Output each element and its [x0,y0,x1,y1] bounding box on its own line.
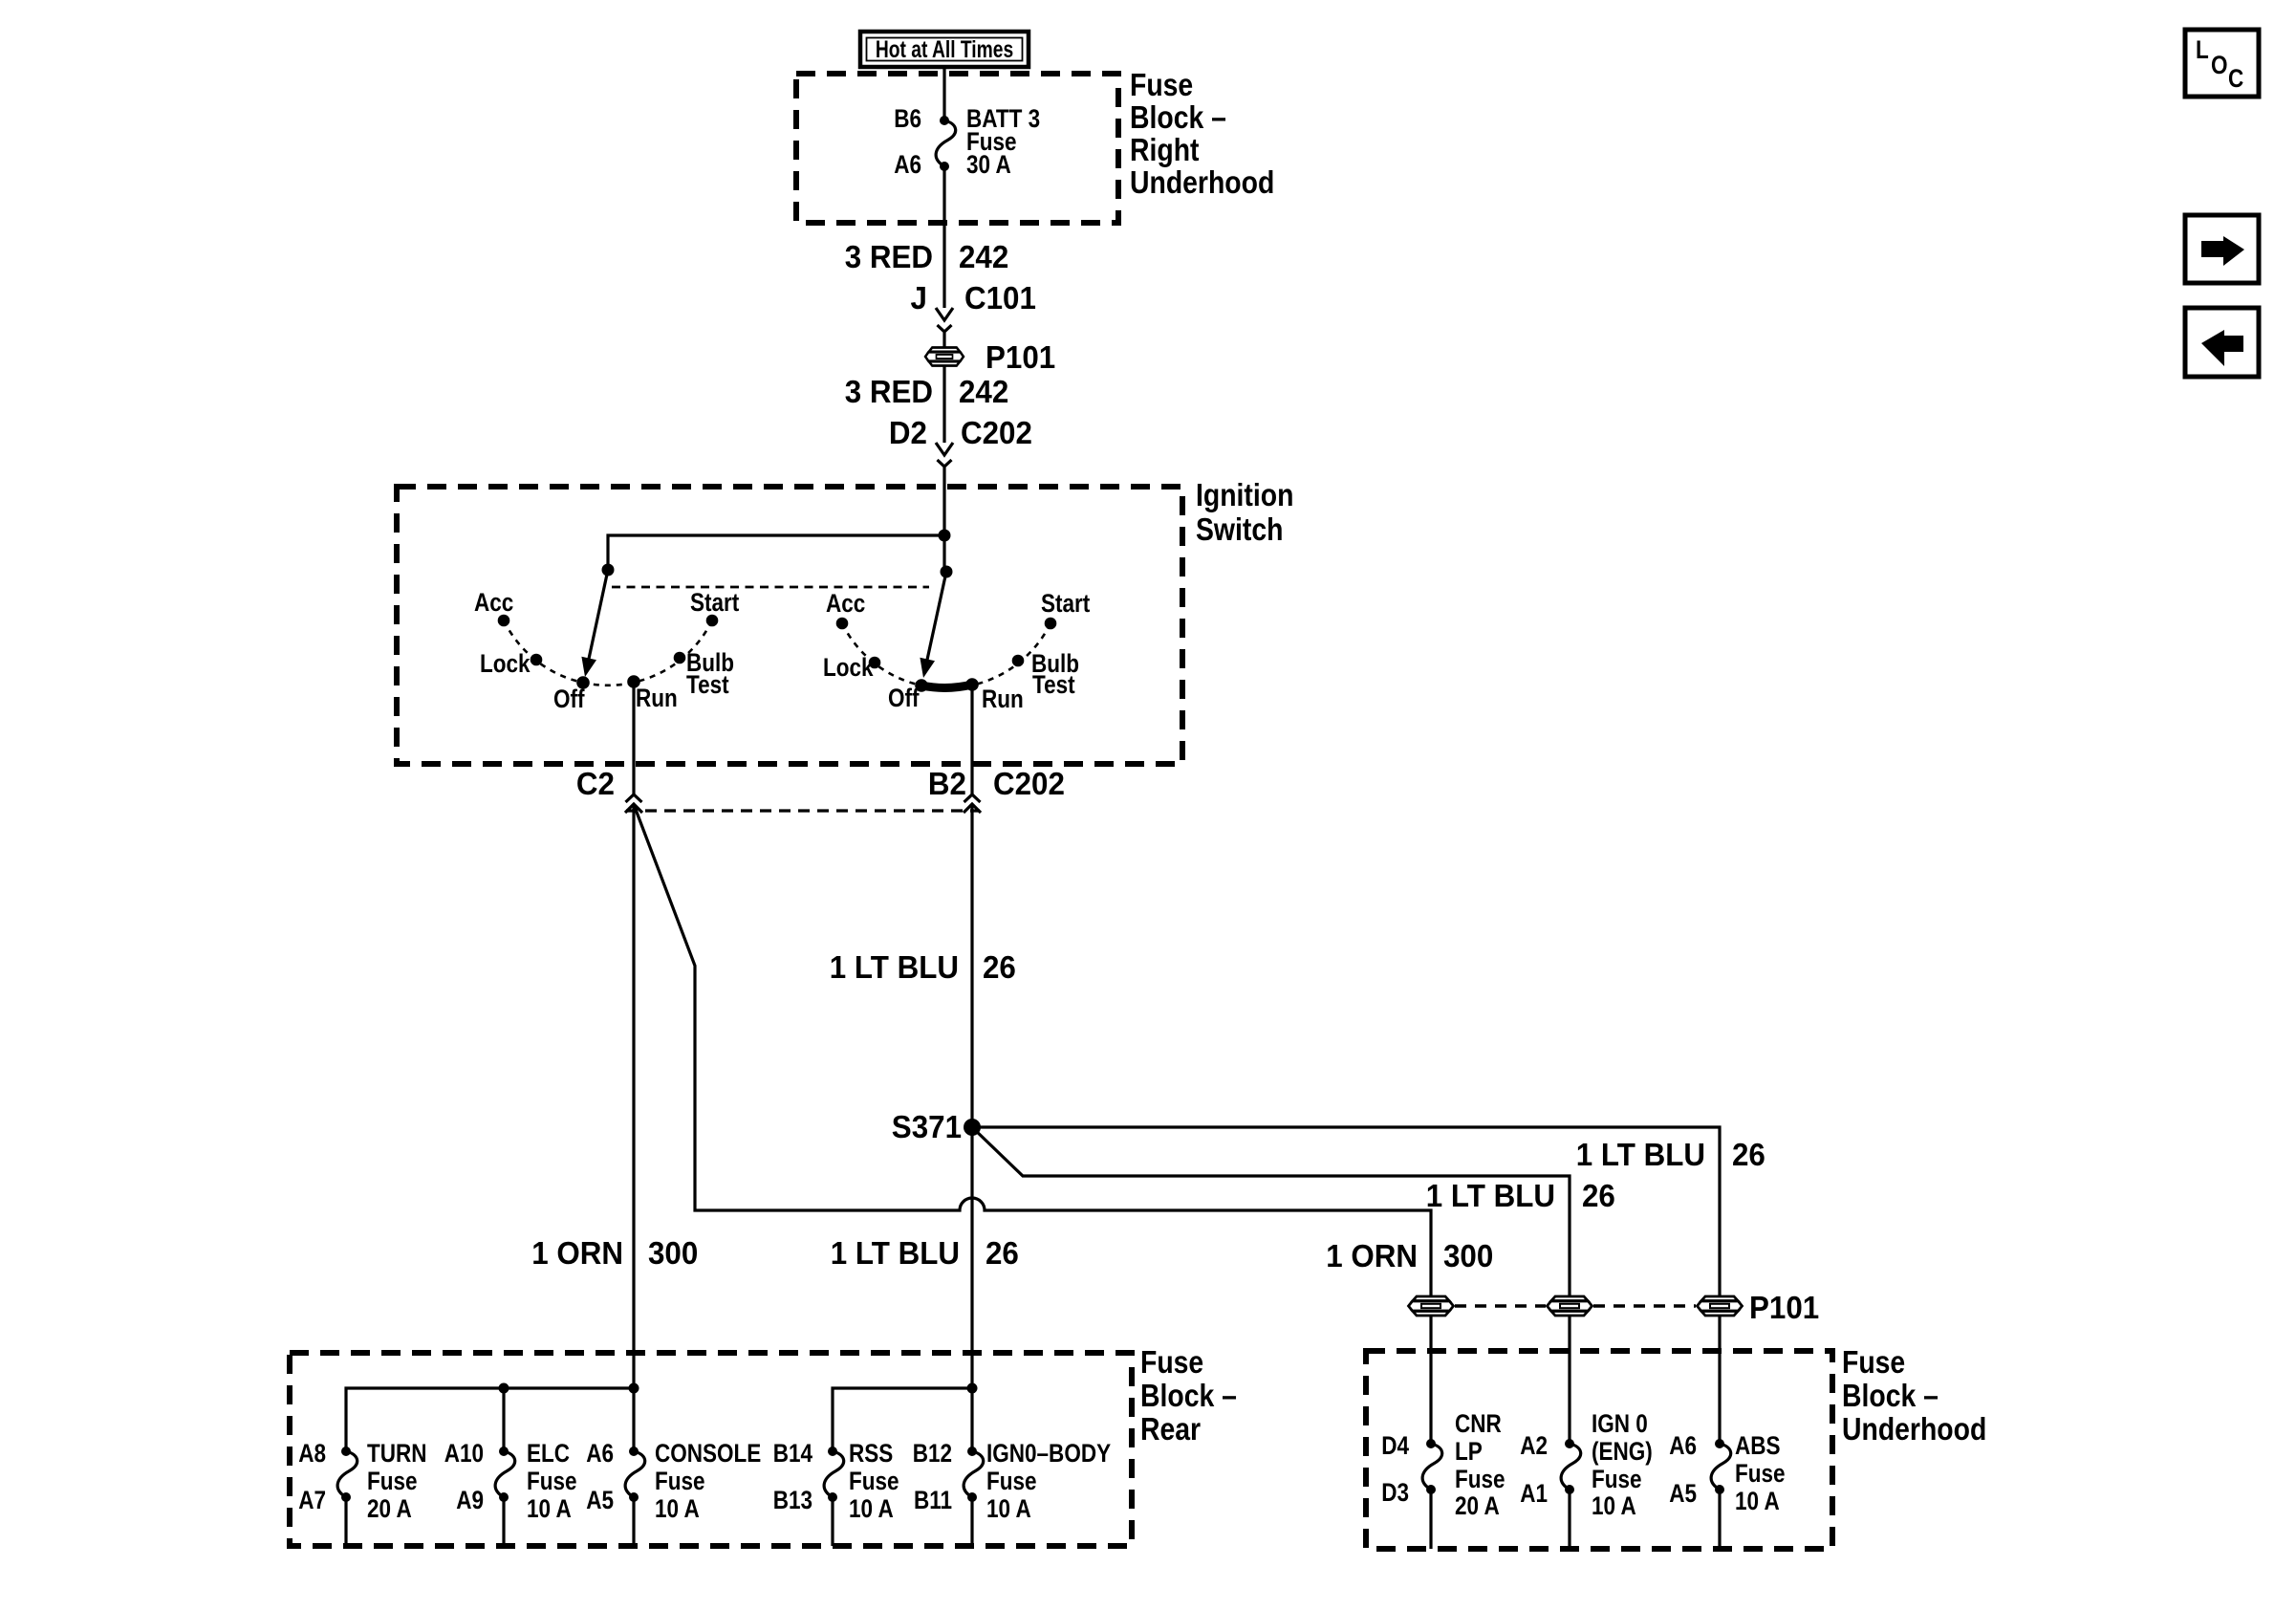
svg-text:Block –: Block – [1140,1378,1237,1414]
svg-text:D3: D3 [1381,1479,1409,1507]
svg-text:1 LT BLU: 1 LT BLU [831,1235,960,1271]
svg-text:TURN: TURN [367,1440,427,1468]
svg-text:O: O [2211,52,2228,79]
svg-text:Test: Test [686,671,729,699]
svg-text:L: L [2196,36,2209,64]
svg-text:Fuse: Fuse [1842,1344,1905,1381]
svg-text:Fuse: Fuse [1130,67,1193,103]
svg-text:Fuse: Fuse [1735,1460,1786,1488]
label Fuse Block - Rear [1140,1344,1237,1447]
svg-text:Lock: Lock [823,654,874,682]
wire bus to ELC fuse [502,1388,505,1451]
svg-text:1 ORN: 1 ORN [531,1235,623,1271]
svg-text:Fuse: Fuse [1592,1466,1642,1493]
svg-text:S371: S371 [892,1109,962,1144]
svg-text:26: 26 [983,949,1016,985]
svg-text:Ignition: Ignition [1196,477,1293,513]
fuse block underhood box [1366,1351,1832,1549]
wire branch from C2 to underhood 1 ORN 300 (with hop over B2 wire) [635,807,1431,1303]
wire from right Run out of box [970,685,973,794]
wire 3 RED 242 from P101 to C202 [942,366,945,443]
svg-text:10 A: 10 A [1592,1492,1636,1520]
legend left-arrow box [2185,308,2259,377]
svg-text:10 A: 10 A [655,1495,700,1523]
ignition switch right pole [823,566,1090,714]
svg-text:Acc: Acc [826,590,865,618]
svg-text:A7: A7 [298,1487,326,1514]
wire from hot bus to fuse B6 [942,66,945,120]
svg-text:10 A: 10 A [1735,1488,1780,1515]
svg-text:Off: Off [888,685,920,712]
svg-text:RSS: RSS [849,1440,893,1468]
svg-text:Fuse: Fuse [849,1468,899,1495]
svg-text:Block –: Block – [1842,1378,1939,1414]
wire into ignition switch [942,468,945,572]
svg-text:242: 242 [959,374,1008,409]
svg-text:C: C [2228,65,2243,93]
connector C202 dashed line [626,809,980,812]
node junction CONSOLE [629,1383,639,1394]
svg-text:Switch: Switch [1196,511,1283,548]
svg-text:B14: B14 [773,1440,813,1468]
fuse ABS 10A [1669,1432,1785,1549]
svg-text:Start: Start [690,589,739,617]
connector C101 pin J [911,280,1036,332]
label Fuse Block - Underhood [1842,1344,1986,1447]
svg-text:A1: A1 [1520,1480,1548,1508]
svg-text:Run: Run [982,685,1024,713]
svg-text:Underhood: Underhood [1842,1411,1986,1447]
wire 3 RED 242 from fuse A6 to C101 [942,166,945,308]
svg-text:Fuse: Fuse [1140,1344,1203,1381]
svg-text:20 A: 20 A [367,1495,412,1523]
svg-text:Rear: Rear [1140,1411,1201,1447]
connector C202 pin D2 [889,415,1032,467]
ignition switch box [397,487,1182,764]
svg-text:Underhood: Underhood [1130,164,1274,201]
fuse CONSOLE 10A [586,1440,761,1546]
svg-text:30 A: 30 A [966,151,1011,179]
svg-text:ELC: ELC [527,1440,570,1468]
fuse IGN 0 (ENG) 10A [1520,1410,1653,1549]
svg-text:Fuse: Fuse [527,1468,577,1495]
svg-text:Fuse: Fuse [367,1468,418,1495]
svg-text:Hot at All Times: Hot at All Times [876,36,1013,63]
splice S371 [892,1109,981,1144]
svg-text:J: J [911,280,927,315]
svg-text:Fuse: Fuse [1455,1466,1505,1493]
wire S371 to ABS 1 LT BLU 26 [972,1127,1720,1303]
rear bus right wire [833,1388,972,1451]
svg-text:A6: A6 [894,151,921,179]
svg-text:26: 26 [986,1235,1019,1271]
svg-text:Right: Right [1130,132,1199,168]
svg-text:CNR: CNR [1455,1410,1502,1438]
svg-text:1 LT BLU: 1 LT BLU [830,949,959,985]
svg-text:B2: B2 [928,766,966,801]
svg-text:A5: A5 [1669,1480,1697,1508]
fuse RSS 10A [773,1440,899,1546]
node Hot at All Times [860,32,1029,67]
svg-text:C202: C202 [993,766,1065,801]
svg-text:B11: B11 [914,1487,952,1514]
svg-text:A9: A9 [456,1487,484,1514]
ignition switch mechanical link (dashed) [612,586,929,589]
svg-text:A8: A8 [298,1440,326,1468]
svg-text:LP: LP [1455,1438,1483,1466]
svg-text:Start: Start [1041,590,1090,618]
svg-text:26: 26 [1582,1178,1615,1213]
svg-text:C101: C101 [964,280,1036,315]
svg-text:242: 242 [959,239,1008,274]
svg-text:C202: C202 [961,415,1032,450]
connector C202 pin C2 [576,766,642,813]
node junction [939,530,951,542]
svg-text:ABS: ABS [1735,1432,1781,1460]
svg-text:Off: Off [553,685,585,713]
fuse BATT 3 30A [894,105,1040,179]
svg-text:Run: Run [636,685,678,712]
svg-text:3 RED: 3 RED [845,239,933,274]
svg-text:26: 26 [1732,1137,1765,1172]
wires P101 to underhood fuses [1429,1316,1432,1444]
legend right-arrow box [2185,215,2259,283]
svg-text:Test: Test [1032,671,1075,699]
fuse block rear box [290,1353,1132,1546]
label Ignition Switch [1196,477,1293,548]
ignition switch left pole [474,564,739,714]
svg-text:(ENG): (ENG) [1592,1438,1653,1466]
svg-text:IGN0–BODY: IGN0–BODY [986,1440,1111,1468]
svg-text:Acc: Acc [474,589,513,617]
svg-text:Lock: Lock [480,650,531,678]
svg-text:IGN 0: IGN 0 [1592,1410,1648,1438]
svg-text:A6: A6 [586,1440,614,1468]
node junction IGN0-BODY [967,1383,978,1394]
wire 1 LT BLU 26 down to S371 [970,805,973,1388]
node junction ELC [499,1383,509,1394]
wire bus to CONSOLE fuse [632,1388,635,1451]
wire branch to left pole [608,535,944,570]
fuse block right underhood box [796,74,1118,223]
svg-text:10 A: 10 A [986,1495,1031,1523]
splice pack P101 (top) [925,339,1055,375]
legend LOC box [2185,30,2259,97]
svg-text:10 A: 10 A [527,1495,572,1523]
svg-text:300: 300 [648,1235,698,1271]
svg-text:A2: A2 [1520,1432,1548,1460]
fuse TURN 20A [298,1440,426,1546]
svg-text:10 A: 10 A [849,1495,894,1523]
fuse ELC 10A [444,1440,577,1546]
wire from left Run out of box [632,682,635,794]
svg-text:B6: B6 [894,105,921,133]
svg-text:3 RED: 3 RED [845,374,933,409]
svg-text:300: 300 [1443,1238,1493,1273]
svg-text:A10: A10 [444,1440,484,1468]
svg-text:Block –: Block – [1130,99,1226,136]
svg-text:A5: A5 [586,1487,614,1514]
svg-text:Fuse: Fuse [986,1468,1037,1495]
svg-text:P101: P101 [1749,1290,1819,1325]
svg-text:P101: P101 [986,339,1055,375]
label Fuse Block - Right Underhood [1130,67,1274,201]
svg-text:D4: D4 [1381,1432,1409,1460]
connector C202 pin B2 [928,766,1065,813]
svg-text:20 A: 20 A [1455,1492,1500,1520]
svg-text:1 ORN: 1 ORN [1326,1238,1418,1273]
splice pack P101 (bottom row) [1409,1290,1820,1325]
wire S371 to IGN0 1 LT BLU 26 [972,1127,1570,1303]
svg-text:B12: B12 [913,1440,952,1468]
svg-text:A6: A6 [1669,1432,1697,1460]
svg-text:B13: B13 [773,1487,812,1514]
wire 1 ORN 300 down to rear fuse block [632,805,635,1388]
svg-text:1 LT BLU: 1 LT BLU [1576,1137,1705,1172]
svg-text:1 LT BLU: 1 LT BLU [1426,1178,1555,1213]
fuse IGN0-BODY 10A [913,1440,1111,1546]
svg-text:C2: C2 [576,766,615,801]
fuse CNR LP 20A [1381,1410,1505,1549]
svg-text:D2: D2 [889,415,927,450]
wire [942,333,945,347]
svg-text:Fuse: Fuse [655,1468,705,1495]
rear bus left wire [346,1388,634,1451]
svg-text:CONSOLE: CONSOLE [655,1440,761,1468]
wire bus to IGN0-BODY fuse [970,1388,973,1451]
